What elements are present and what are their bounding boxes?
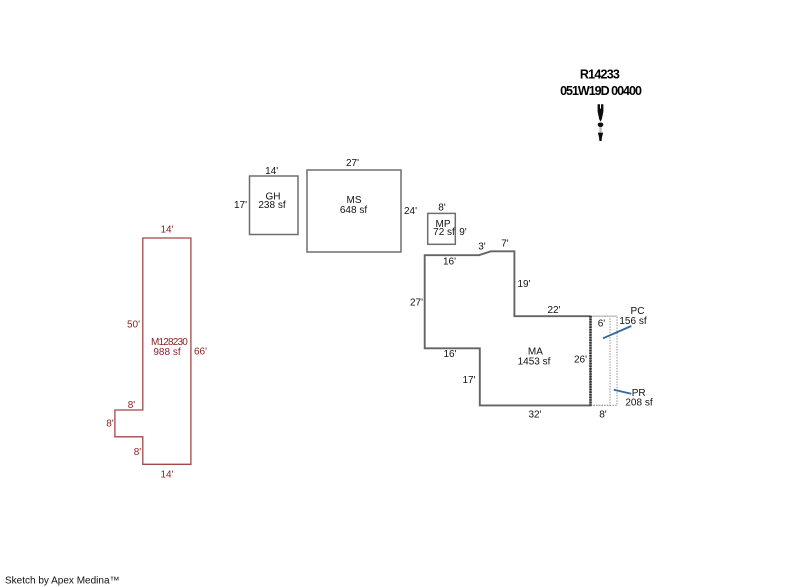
svg-text:988 sf: 988 sf — [153, 347, 180, 358]
building M128230 outline (red polygon) — [115, 238, 191, 464]
svg-text:72 sf: 72 sf — [433, 227, 455, 238]
building GH outline — [250, 176, 299, 235]
svg-text:1453 sf: 1453 sf — [518, 357, 551, 368]
darker shared edge on MA right side — [589, 316, 592, 406]
svg-text:9': 9' — [459, 227, 467, 238]
building MA outline — [425, 251, 591, 405]
porch PC dotted outline — [591, 316, 611, 405]
porch top shared edge — [591, 315, 618, 317]
leader line to PC — [603, 326, 631, 338]
svg-text:27': 27' — [346, 158, 359, 169]
svg-text:8': 8' — [106, 419, 114, 430]
svg-text:8': 8' — [134, 447, 142, 458]
leader line to PR — [614, 390, 632, 394]
svg-text:14': 14' — [265, 166, 278, 177]
svg-text:Sketch by Apex Medina™: Sketch by Apex Medina™ — [5, 575, 120, 586]
svg-text:17': 17' — [462, 375, 475, 386]
svg-text:32': 32' — [528, 410, 541, 421]
svg-text:17': 17' — [234, 200, 247, 211]
svg-text:14': 14' — [160, 225, 173, 236]
svg-text:3': 3' — [478, 242, 486, 253]
north arrow — [598, 104, 604, 141]
svg-text:208 sf: 208 sf — [625, 397, 652, 408]
svg-text:50': 50' — [127, 320, 140, 331]
svg-text:8': 8' — [599, 410, 607, 421]
svg-text:8': 8' — [128, 400, 136, 411]
svg-text:24': 24' — [404, 206, 417, 217]
svg-text:051W19D 00400: 051W19D 00400 — [560, 84, 642, 98]
porch PR dotted outline — [591, 316, 618, 405]
svg-text:19': 19' — [517, 279, 530, 290]
svg-text:66': 66' — [194, 347, 207, 358]
svg-text:14': 14' — [160, 470, 173, 481]
building MP outline — [428, 213, 456, 244]
svg-text:238 sf: 238 sf — [258, 200, 285, 211]
svg-text:8': 8' — [438, 203, 446, 214]
svg-text:7': 7' — [501, 239, 509, 250]
svg-text:648 sf: 648 sf — [340, 205, 367, 216]
svg-text:22': 22' — [547, 305, 560, 316]
svg-text:27': 27' — [410, 297, 423, 308]
svg-text:156 sf: 156 sf — [619, 316, 646, 327]
building MS outline — [307, 170, 401, 252]
svg-text:R14233: R14233 — [580, 68, 620, 82]
svg-text:6': 6' — [598, 319, 606, 330]
svg-text:26': 26' — [574, 355, 587, 366]
svg-text:16': 16' — [443, 256, 456, 267]
svg-text:16': 16' — [443, 349, 456, 360]
